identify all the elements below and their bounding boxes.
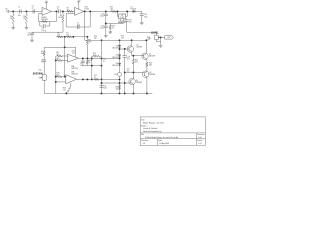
capacitor C17 <box>125 20 129 22</box>
wire <box>63 59 68 61</box>
capacitor C14 under box <box>119 19 121 21</box>
junction <box>64 76 66 78</box>
svg-text:10u: 10u <box>27 35 30 37</box>
diode D1 <box>133 10 135 12</box>
svg-text:1u: 1u <box>57 9 59 11</box>
svg-text:+: + <box>75 9 76 11</box>
capacitor C9 from U3A out <box>82 58 84 61</box>
wire <box>31 31 33 34</box>
svg-text:10k: 10k <box>57 34 60 36</box>
resistor R3 <box>41 20 47 22</box>
svg-text:2N5088: 2N5088 <box>149 56 155 58</box>
svg-text:+: + <box>43 9 44 11</box>
svg-text:10n: 10n <box>127 59 130 61</box>
svg-text:R12: R12 <box>56 58 59 60</box>
ground <box>159 44 163 47</box>
svg-text:1N4148: 1N4148 <box>112 47 118 49</box>
wire input line <box>9 10 42 12</box>
capacitor C18 column <box>124 49 126 56</box>
svg-text:R10: R10 <box>38 69 41 71</box>
vertical x91.8 with resistor <box>91 56 93 79</box>
svg-text:Date: Date <box>158 139 162 142</box>
svg-text:10k: 10k <box>116 89 119 91</box>
svg-text:47p: 47p <box>77 25 80 27</box>
svg-text:10p: 10p <box>80 65 83 67</box>
transistor Q1 <box>127 46 133 52</box>
svg-text:LEVEL: LEVEL <box>151 32 159 34</box>
wire Q4 emitter <box>132 84 134 93</box>
wire signal to level pot <box>126 19 128 20</box>
svg-text:D:\Work\ Maple Flanger - de mo: D:\Work\ Maple Flanger - de mod v0.4 sch… <box>145 137 178 139</box>
wire box caps bus <box>106 23 124 25</box>
junction <box>117 10 119 12</box>
svg-text:1k: 1k <box>94 77 96 79</box>
wire U1A feedback loop <box>39 11 57 21</box>
resistor R1 <box>12 14 14 25</box>
transistor Q3 <box>142 71 148 77</box>
svg-text:1 of 1: 1 of 1 <box>198 143 202 145</box>
wire Q3 emitter <box>146 77 148 94</box>
left bias column <box>55 56 57 93</box>
svg-text:10k: 10k <box>94 38 97 40</box>
wire <box>12 24 14 26</box>
junction <box>64 36 66 38</box>
svg-text:LM13700: LM13700 <box>71 68 78 70</box>
potentiometer R10 SUSTAIN <box>42 75 46 80</box>
svg-text:C1: C1 <box>18 7 20 9</box>
capacitor C6 <box>30 33 34 35</box>
op-amp OTA U3B <box>66 75 77 84</box>
wire box pin right <box>126 11 128 16</box>
junction <box>62 10 64 12</box>
junction <box>25 10 27 12</box>
svg-text:47k: 47k <box>93 55 96 57</box>
junction <box>84 10 86 12</box>
resistor R11 <box>56 55 62 57</box>
resistor R9 <box>43 50 45 56</box>
wire <box>25 24 27 26</box>
resistor R25 on column <box>118 84 120 90</box>
wire y65.6 link <box>83 65 102 67</box>
resistor R5 <box>66 10 73 12</box>
wire <box>43 56 45 60</box>
vertical x101.5 <box>101 40 103 93</box>
resistor R12 <box>56 59 62 61</box>
capacitor C5 <box>77 25 79 29</box>
wire vref rail <box>32 31 63 33</box>
wire Q2 collector <box>145 40 147 53</box>
wire pot bottom ground <box>156 40 160 42</box>
ground <box>104 34 108 37</box>
wire Q3 base <box>125 71 144 73</box>
capacitor C12 <box>104 14 108 16</box>
junction <box>160 36 162 38</box>
svg-text:10k: 10k <box>121 38 124 40</box>
svg-text:LM13700: LM13700 <box>71 74 78 76</box>
resistor R2 <box>25 14 27 25</box>
potentiometer R26 LEVEL <box>155 35 159 40</box>
wire C4 to U1B <box>60 10 75 12</box>
wire top rail <box>84 10 141 12</box>
op-amp U1B <box>75 7 84 15</box>
svg-text:Maple Flanger - de mod: Maple Flanger - de mod <box>143 122 164 124</box>
transistor Q4 <box>129 78 135 84</box>
svg-text:10k: 10k <box>147 39 150 41</box>
PSU filter chain <box>105 10 107 12</box>
svg-text:1k: 1k <box>89 62 91 64</box>
resistor R21 top rail <box>110 10 116 12</box>
capacitor C8 <box>42 60 46 62</box>
junction <box>124 48 126 50</box>
svg-text:47: 47 <box>112 28 114 30</box>
capacitor C15 under box <box>123 19 125 21</box>
title block frame <box>140 117 205 145</box>
svg-text:Revision: Revision <box>141 140 148 142</box>
lamp LP1 <box>118 72 122 76</box>
wire Q1 base <box>120 48 130 50</box>
svg-text:510: 510 <box>56 54 59 56</box>
svg-text:47k: 47k <box>89 42 92 44</box>
wire <box>31 35 33 39</box>
diode D2 <box>118 45 120 47</box>
wire <box>63 76 66 78</box>
svg-text:1N4001: 1N4001 <box>130 9 136 11</box>
svg-text:+: + <box>66 76 67 78</box>
right diode column <box>119 40 121 93</box>
junction <box>132 55 134 57</box>
wire pot to bottom rail <box>43 80 45 93</box>
resistor R7 <box>66 36 72 38</box>
op-amp OTA U3A <box>67 54 78 62</box>
input port IN <box>6 10 8 12</box>
IC U2 charge pump box <box>119 14 126 19</box>
svg-text:SUSTAIN: SUSTAIN <box>33 73 43 76</box>
wire <box>160 37 162 44</box>
svg-text:10k: 10k <box>67 10 70 12</box>
wire vcc rail y40 <box>85 11 148 40</box>
bottom rail <box>44 92 152 94</box>
svg-text:10n: 10n <box>18 15 21 17</box>
resistor R4 <box>62 14 64 23</box>
svg-text:22k: 22k <box>63 90 66 92</box>
svg-text:1N4148: 1N4148 <box>112 65 118 67</box>
svg-text:Title: Title <box>141 118 144 121</box>
wire U3B bias pin and diagonal resistor R18 <box>70 83 72 87</box>
junction U1A out <box>55 10 57 12</box>
junction <box>64 46 66 48</box>
svg-text:Ursula N. Nichols: Ursula N. Nichols <box>143 127 157 130</box>
svg-text:File: File <box>141 134 144 136</box>
wire R24 to Q3 <box>146 67 148 71</box>
ground <box>11 26 15 29</box>
svg-text:2N5088: 2N5088 <box>149 74 155 76</box>
wire U1A vcc pin <box>45 5 47 10</box>
capacitor C11 on x101.5 <box>100 86 104 88</box>
svg-text:20-Apr-2006: 20-Apr-2006 <box>159 142 169 145</box>
wire center tap <box>64 37 66 77</box>
svg-text:100n: 100n <box>103 88 107 90</box>
ground <box>140 22 144 25</box>
junction <box>12 10 14 12</box>
wire <box>43 62 45 75</box>
wire R4 to Vref <box>62 23 64 32</box>
wire <box>12 11 14 13</box>
resistor R17 in U3B out <box>94 78 100 80</box>
resistor R14 from U3A out <box>86 59 88 64</box>
svg-text:22k: 22k <box>72 53 75 55</box>
capacitor C16 psu out <box>140 11 143 14</box>
wire <box>141 16 143 22</box>
wire C18 to rail <box>124 57 126 93</box>
svg-text:2N5088: 2N5088 <box>136 47 142 49</box>
wire <box>25 11 27 13</box>
wire Q4 collector <box>132 72 134 79</box>
wire Q1 emitter to Q2 base <box>132 52 144 56</box>
power +9V U1A <box>45 2 48 4</box>
wire y83 to Q4 base <box>102 82 131 84</box>
svg-text:+: + <box>68 56 69 58</box>
ground <box>25 26 29 29</box>
wire Q1 collector <box>131 40 133 46</box>
svg-text:1u: 1u <box>41 62 43 64</box>
svg-text:4k7: 4k7 <box>135 62 138 64</box>
wire pot wiper to out <box>158 36 164 38</box>
resistor R6 <box>57 36 64 38</box>
svg-text:1u: 1u <box>103 61 105 63</box>
wire U3A output <box>79 57 120 59</box>
wire R8 to U3A out <box>86 45 88 58</box>
wire <box>62 11 64 14</box>
op-amp U1A <box>42 7 52 15</box>
ground <box>108 31 112 34</box>
sustain chain <box>43 47 45 50</box>
resistor R19 bleed <box>109 23 111 26</box>
diode D4 <box>118 63 120 65</box>
svg-text:1N4148: 1N4148 <box>112 57 118 59</box>
svg-text:TL062: TL062 <box>84 8 89 10</box>
svg-text:2N5088: 2N5088 <box>136 82 142 84</box>
svg-text:0.44: 0.44 <box>198 137 201 139</box>
power +9V U1B <box>77 2 80 4</box>
wire Q2 emitter <box>145 59 148 62</box>
capacitor C1 <box>20 9 22 13</box>
wire <box>63 55 68 57</box>
capacitor C2 <box>33 9 35 13</box>
output port OUT <box>165 36 174 39</box>
wire U1A output <box>52 10 59 12</box>
svg-text:4.0: 4.0 <box>143 143 145 145</box>
svg-text:100u: 100u <box>100 16 104 18</box>
svg-text:TC962: TC962 <box>120 17 125 19</box>
svg-text:10k: 10k <box>41 53 44 55</box>
resistor R16 U3B +in <box>56 76 62 78</box>
wire U3B -in <box>56 81 66 83</box>
wire box pin left <box>118 11 119 16</box>
capacitor C3 <box>44 24 46 28</box>
svg-text:100: 100 <box>110 9 113 11</box>
svg-text:10k: 10k <box>66 34 69 36</box>
svg-text:Hamshire Engineering: Hamshire Engineering <box>143 130 161 133</box>
capacitor C13 <box>104 26 108 28</box>
svg-text:470k: 470k <box>58 17 62 19</box>
wire U1B vcc pin <box>78 4 80 9</box>
junction <box>89 10 91 12</box>
capacitor C4 <box>59 9 61 13</box>
svg-text:10u: 10u <box>129 22 132 24</box>
svg-text:50k: 50k <box>39 77 42 79</box>
wire U3B output <box>77 78 120 80</box>
junction <box>72 36 74 38</box>
svg-text:100n: 100n <box>100 28 104 30</box>
wire U1B feedback loop <box>66 11 90 27</box>
wire R23 down <box>132 65 134 73</box>
wire <box>46 22 50 27</box>
resistor R24 <box>146 62 148 68</box>
svg-text:510: 510 <box>56 75 59 77</box>
svg-text:680: 680 <box>149 65 152 67</box>
junction <box>86 36 88 38</box>
wire U3A bias pin <box>75 47 77 57</box>
resistor R8 column <box>86 37 88 39</box>
wire C3 branch <box>40 22 43 27</box>
svg-text:Author: Author <box>141 125 147 128</box>
svg-text:LP1: LP1 <box>114 74 117 76</box>
svg-text:1u: 1u <box>32 8 34 10</box>
wire filter bottom <box>44 46 75 48</box>
diode D3 <box>118 55 120 57</box>
junction <box>132 71 134 73</box>
ground <box>30 39 34 42</box>
transistor Q2 <box>142 53 148 59</box>
svg-text:U2: U2 <box>121 15 123 17</box>
wire filter top <box>56 36 87 38</box>
svg-text:100u: 100u <box>144 16 148 18</box>
resistor R23 hanging <box>132 56 134 59</box>
